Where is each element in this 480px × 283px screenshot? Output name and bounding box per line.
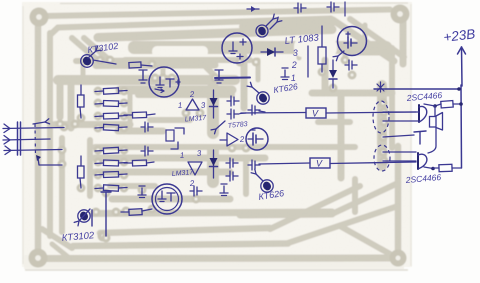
svg-text:2: 2	[290, 60, 297, 70]
svg-text:V: V	[316, 159, 323, 169]
svg-text:V: V	[312, 109, 319, 119]
svg-text:1: 1	[180, 151, 185, 160]
svg-text:1: 1	[178, 101, 183, 110]
svg-text:3: 3	[292, 48, 298, 58]
